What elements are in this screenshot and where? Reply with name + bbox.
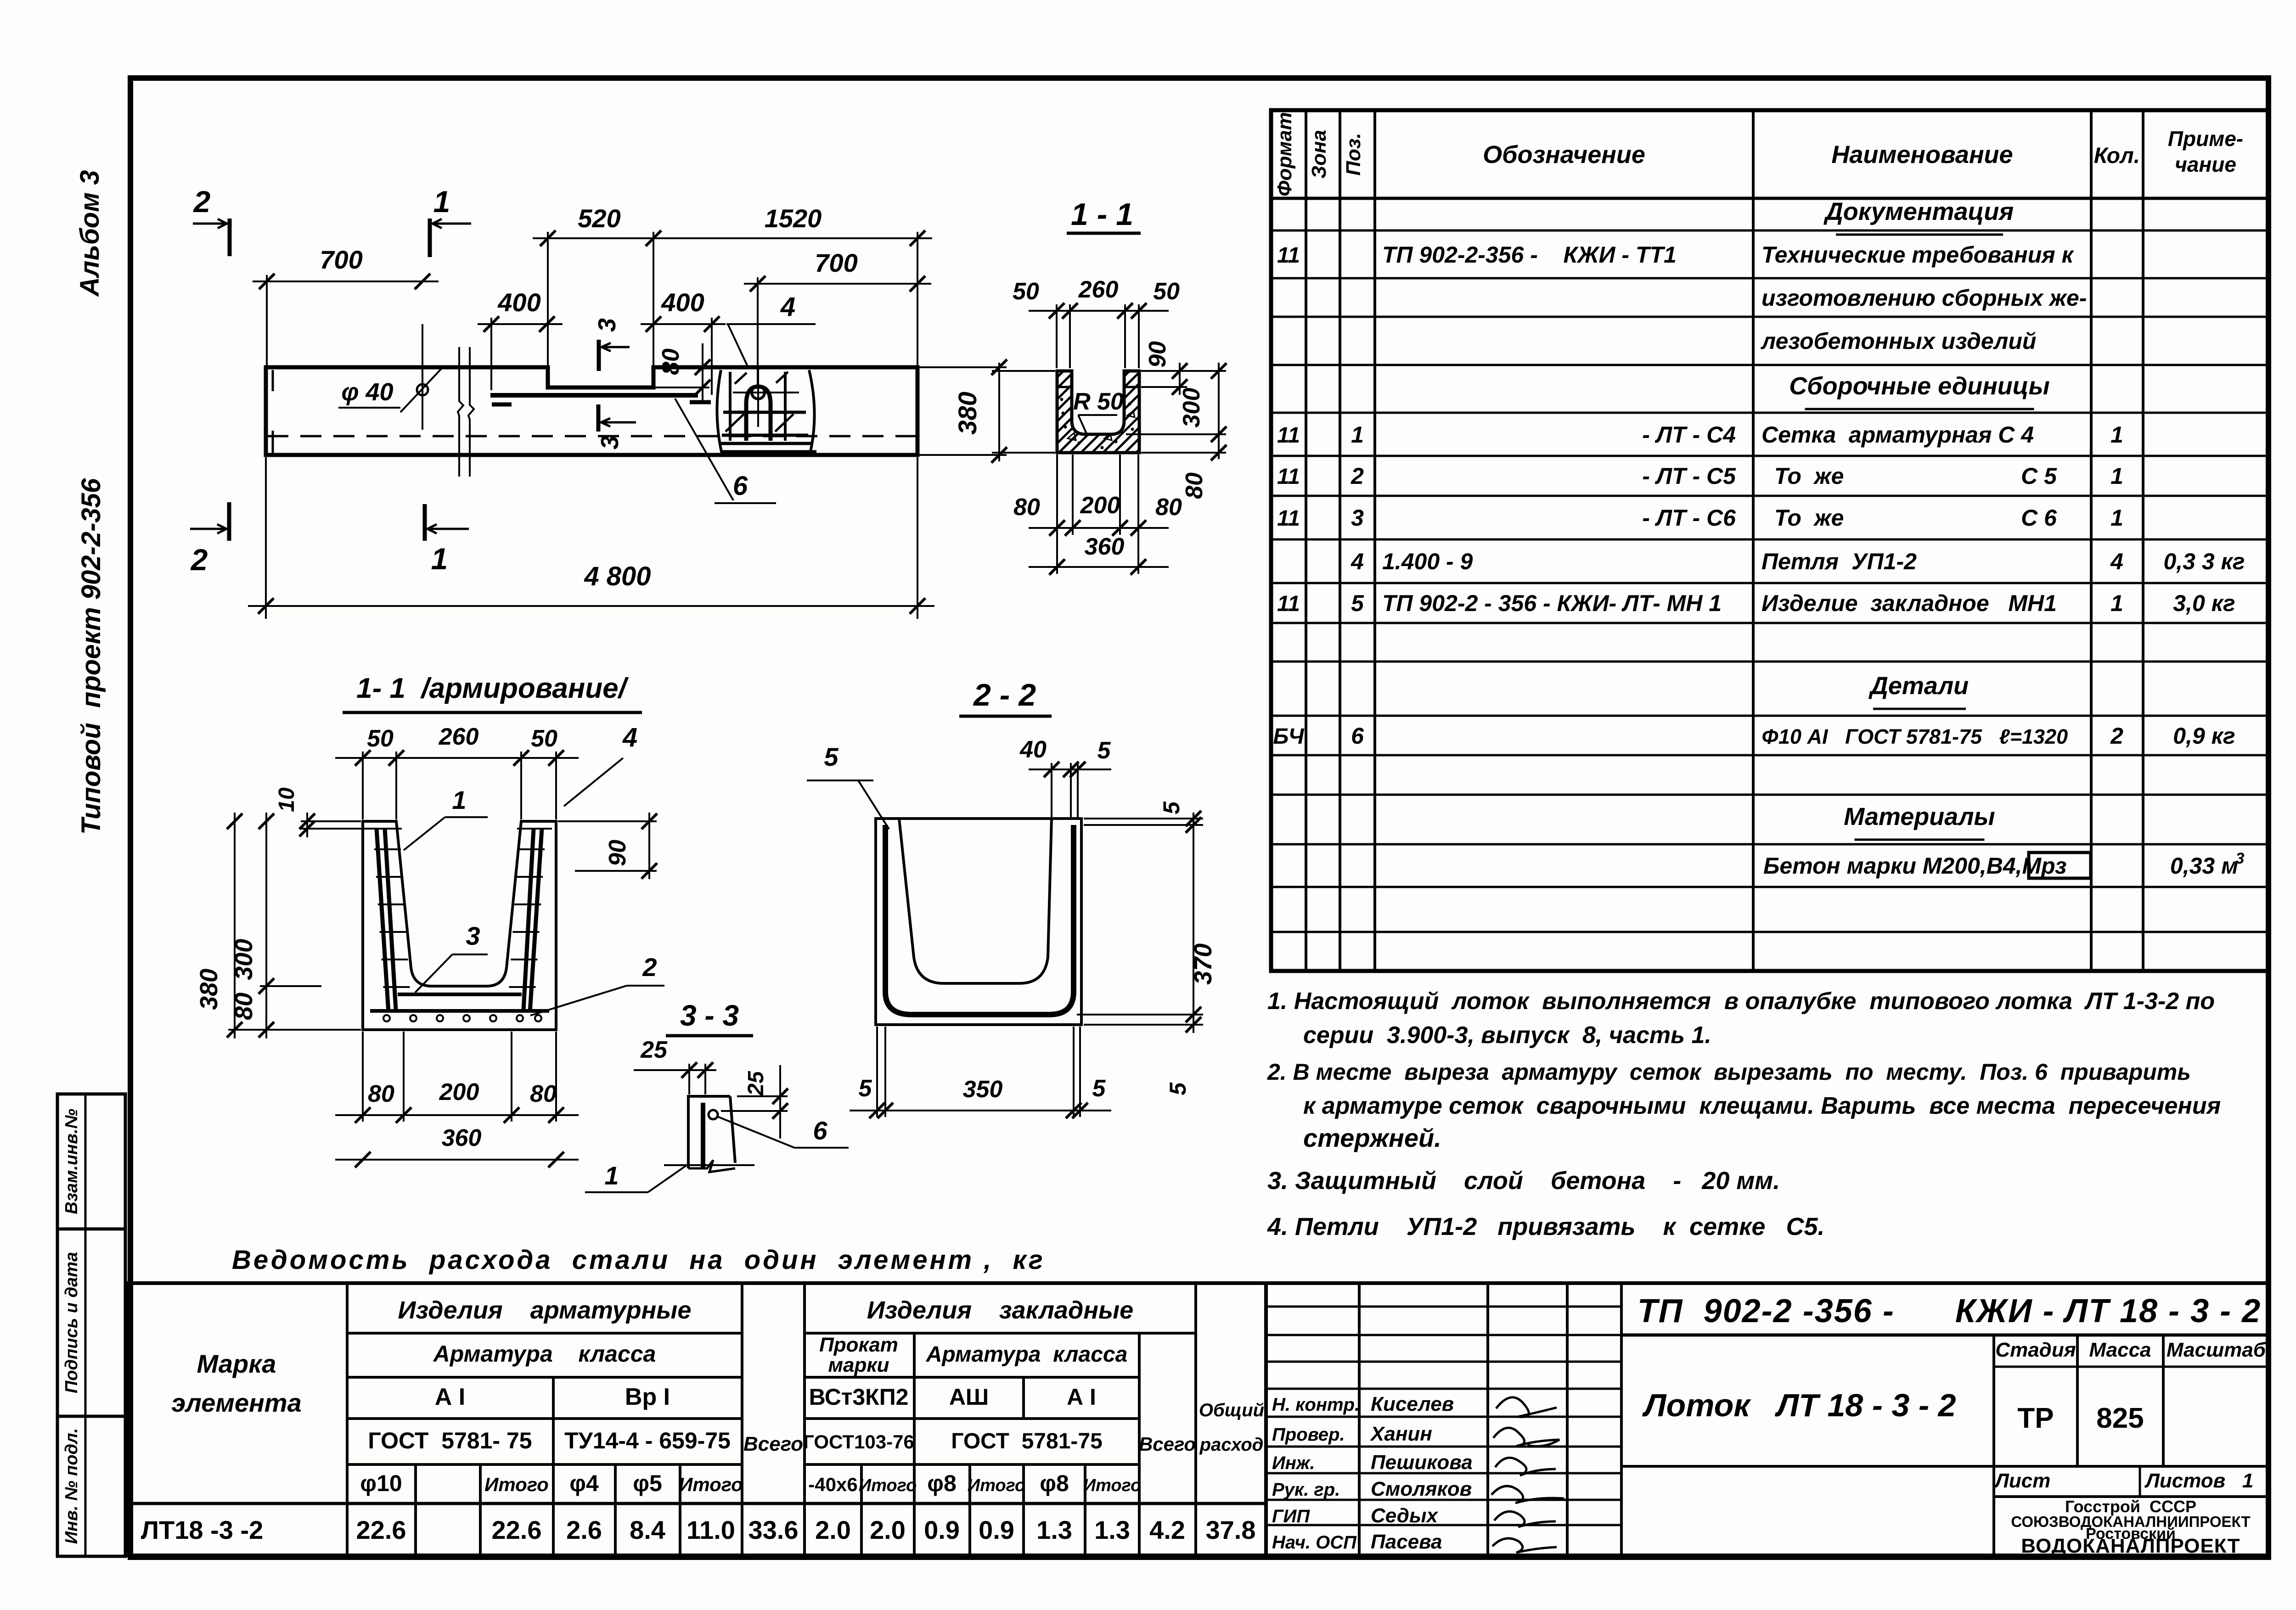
svg-text:22.6: 22.6 xyxy=(492,1515,542,1544)
signature squiggles xyxy=(1496,1397,1557,1417)
svg-text:80: 80 xyxy=(230,993,258,1020)
svg-text:8.4: 8.4 xyxy=(630,1515,665,1544)
embedded rod item6 main bar xyxy=(490,393,698,398)
svg-text:ВСт3КП2: ВСт3КП2 xyxy=(809,1384,909,1410)
svg-text:Общий: Общий xyxy=(1199,1400,1264,1420)
svg-text:А I: А I xyxy=(1067,1384,1096,1410)
svg-text:ГОСТ 5781-75: ГОСТ 5781-75 xyxy=(951,1429,1103,1453)
svg-text:φ8: φ8 xyxy=(1040,1470,1069,1496)
svg-text:Альбом 3: Альбом 3 xyxy=(75,170,105,297)
svg-text:3 - 3: 3 - 3 xyxy=(680,999,739,1032)
svg-text:Арматура класса: Арматура класса xyxy=(926,1342,1128,1367)
section mark 2 top xyxy=(228,219,232,256)
svg-text:6: 6 xyxy=(813,1116,827,1145)
vedomost row lines xyxy=(347,1332,742,1335)
svg-text:80: 80 xyxy=(1013,494,1040,521)
svg-text:6: 6 xyxy=(1351,723,1364,749)
svg-text:Вр I: Вр I xyxy=(625,1384,670,1410)
svg-text:2.0: 2.0 xyxy=(815,1515,851,1544)
loop circle xyxy=(752,386,765,399)
svg-text:1.3: 1.3 xyxy=(1036,1515,1072,1544)
svg-text:825: 825 xyxy=(2096,1402,2144,1434)
svg-text:ЛТ18 -3 -2: ЛТ18 -3 -2 xyxy=(141,1515,264,1544)
dimension 520 and 1520 top xyxy=(533,237,932,239)
bottom mesh C5 inner line xyxy=(398,993,522,996)
svg-text:350: 350 xyxy=(963,1076,1003,1103)
svg-text:1: 1 xyxy=(2110,505,2123,531)
svg-text:С 5: С 5 xyxy=(2021,463,2057,489)
svg-text:элемента: элемента xyxy=(171,1388,301,1417)
svg-text:φ4: φ4 xyxy=(569,1470,599,1496)
svg-text:ГОСТ103-76: ГОСТ103-76 xyxy=(803,1431,914,1453)
svg-text:Бетон марки М200,В4,Мрз: Бетон марки М200,В4,Мрз xyxy=(1763,853,2067,879)
svg-text:Зона: Зона xyxy=(1308,130,1330,179)
svg-text:серии 3.900-3, выпуск 8, час: серии 3.900-3, выпуск 8, часть 1. xyxy=(1303,1022,1711,1049)
svg-text:37.8: 37.8 xyxy=(1206,1515,1256,1544)
svg-text:0,3 3 кг: 0,3 3 кг xyxy=(2163,549,2245,574)
svg-text:1: 1 xyxy=(2110,463,2123,489)
section 3-3 dim 25 top xyxy=(634,1069,716,1071)
svg-text:2: 2 xyxy=(642,953,657,982)
loop patch cross wire xyxy=(723,411,806,414)
svg-text:Всего: Всего xyxy=(1139,1433,1196,1455)
svg-text:0.9: 0.9 xyxy=(924,1515,960,1544)
vedomost table outline xyxy=(126,1283,1266,1555)
svg-text:1.400 - 9: 1.400 - 9 xyxy=(1382,549,1473,574)
section 3-3 dim 25 right xyxy=(779,1065,781,1139)
svg-text:80: 80 xyxy=(1155,494,1182,521)
svg-text:520: 520 xyxy=(578,204,620,233)
svg-text:5: 5 xyxy=(1351,590,1364,616)
elevation hidden channel dashed line xyxy=(267,435,916,438)
svg-text:Масштаб: Масштаб xyxy=(2167,1339,2267,1361)
svg-text:Технические требования к: Технические требования к xyxy=(1761,242,2075,268)
section 1-1 concrete outline xyxy=(1057,371,1139,453)
svg-text:марки: марки xyxy=(828,1354,889,1376)
svg-text:Нач. ОСП: Нач. ОСП xyxy=(1272,1532,1357,1553)
svg-text:0,33 м: 0,33 м xyxy=(2170,853,2238,879)
hole phi40 leader xyxy=(400,367,443,412)
svg-text:11: 11 xyxy=(1277,592,1300,616)
svg-text:50: 50 xyxy=(367,725,394,752)
embedded rod item6 left hook xyxy=(492,403,512,407)
title block stadia section xyxy=(1992,1335,1995,1555)
svg-text:Сборочные единицы: Сборочные единицы xyxy=(1789,372,2050,400)
svg-text:300: 300 xyxy=(1178,388,1205,428)
svg-text:25: 25 xyxy=(744,1071,768,1096)
reinforcement dimension 360 xyxy=(335,1159,579,1161)
svg-text:Кол.: Кол. xyxy=(2094,144,2140,168)
svg-text:Поз.: Поз. xyxy=(1342,133,1365,175)
svg-text:50: 50 xyxy=(531,725,557,752)
reinforcement concrete outline xyxy=(363,821,556,1030)
svg-text:2: 2 xyxy=(193,185,211,219)
svg-text:Приме-: Приме- xyxy=(2168,127,2243,151)
svg-text:400: 400 xyxy=(661,288,704,317)
svg-text:ТУ14-4 - 659-75: ТУ14-4 - 659-75 xyxy=(564,1428,731,1453)
svg-text:5: 5 xyxy=(1092,1075,1106,1102)
leader to label 4 xyxy=(728,324,748,368)
section 1-1 dimension 90 right xyxy=(1179,363,1181,395)
svg-text:φ 40: φ 40 xyxy=(341,378,393,406)
svg-text:Наименование: Наименование xyxy=(1831,141,2013,168)
mesh C4 right wall bars xyxy=(530,829,542,1012)
svg-text:1520: 1520 xyxy=(765,204,822,233)
svg-text:1: 1 xyxy=(604,1161,619,1190)
section 2-2 outer outline xyxy=(876,819,1081,1025)
title block name cell Лоток xyxy=(1621,1465,1994,1468)
svg-text:БЧ: БЧ xyxy=(1273,724,1304,749)
svg-text:360: 360 xyxy=(1085,533,1125,560)
section 2-2 mesh C6 heavy U xyxy=(885,825,1074,1015)
svg-text:1. Настоящий лоток выполняет: 1. Настоящий лоток выполняется в опалубк… xyxy=(1267,988,2215,1015)
svg-text:Итого: Итого xyxy=(679,1474,743,1495)
svg-text:АШ: АШ xyxy=(949,1384,989,1410)
svg-text:ГОСТ 5781- 75: ГОСТ 5781- 75 xyxy=(368,1428,532,1453)
svg-text:расход: расход xyxy=(1199,1435,1264,1455)
vedomost column lines xyxy=(346,1283,349,1555)
hole phi40 centerline xyxy=(422,324,423,430)
svg-text:4: 4 xyxy=(1351,549,1364,574)
svg-text:Изделие закладное МН1: Изделие закладное МН1 xyxy=(1761,590,2057,616)
svg-text:Типовой проект 902-2-356: Типовой проект 902-2-356 xyxy=(76,478,106,835)
elevation body outline xyxy=(266,367,917,455)
svg-text:Материалы: Материалы xyxy=(1844,803,1995,830)
svg-text:R 50: R 50 xyxy=(1073,388,1124,415)
bottom bar sections xyxy=(383,1015,390,1021)
svg-text:Киселев: Киселев xyxy=(1371,1393,1454,1415)
title block vertical lines xyxy=(1358,1283,1361,1555)
svg-text:Инж.: Инж. xyxy=(1272,1453,1315,1473)
svg-text:4 800: 4 800 xyxy=(584,561,651,591)
bottom mesh C5 outer line xyxy=(370,1009,549,1013)
svg-text:380: 380 xyxy=(953,392,982,434)
svg-text:90: 90 xyxy=(1144,341,1171,368)
svg-text:3: 3 xyxy=(593,318,621,332)
svg-text:2.6: 2.6 xyxy=(566,1515,602,1544)
svg-text:Пасева: Пасева xyxy=(1371,1531,1442,1553)
svg-text:1 - 1: 1 - 1 xyxy=(1071,197,1133,232)
dimension 380 right elevation xyxy=(998,363,1000,461)
svg-text:- ЛТ - С5: - ЛТ - С5 xyxy=(1642,463,1736,489)
svg-text:1: 1 xyxy=(433,185,450,219)
svg-text:стержней.: стержней. xyxy=(1303,1123,1441,1152)
dimension 400 right xyxy=(641,323,726,325)
dimension 10 left top xyxy=(306,813,308,837)
svg-text:2: 2 xyxy=(190,543,208,577)
mesh cross wire ticks right wall xyxy=(518,848,545,850)
svg-text:1: 1 xyxy=(431,542,448,576)
svg-text:Провер.: Провер. xyxy=(1272,1425,1345,1445)
svg-text:Марка: Марка xyxy=(197,1349,276,1378)
section 3-3 plate break line xyxy=(688,1160,735,1172)
reinforcement bottom dimension 80 200 80 xyxy=(335,1114,579,1116)
title block big designation row line xyxy=(1621,1334,2268,1337)
svg-text:Лист: Лист xyxy=(1994,1470,2051,1492)
svg-text:200: 200 xyxy=(1080,492,1120,519)
svg-text:Подпись и дата: Подпись и дата xyxy=(62,1252,81,1393)
svg-text:700: 700 xyxy=(320,245,362,274)
dimension 4800 bottom xyxy=(248,605,934,607)
svg-text:0,9 кг: 0,9 кг xyxy=(2173,723,2235,749)
svg-text:чание: чание xyxy=(2175,152,2236,176)
section 1-1 top dimension 50 260 50 xyxy=(1029,310,1169,312)
svg-text:11: 11 xyxy=(1277,243,1300,268)
svg-text:370: 370 xyxy=(1189,943,1217,985)
svg-text:22.6: 22.6 xyxy=(356,1515,406,1544)
svg-text:50: 50 xyxy=(1153,278,1180,305)
svg-text:- ЛТ - С6: - ЛТ - С6 xyxy=(1642,505,1736,531)
loop patch inner verticals xyxy=(729,372,732,441)
svg-text:Ведомость расхода стали на: Ведомость расхода стали на один элемент … xyxy=(232,1245,1045,1275)
svg-text:То же: То же xyxy=(1761,463,1844,489)
svg-text:ГИП: ГИП xyxy=(1272,1506,1310,1526)
svg-text:25: 25 xyxy=(640,1037,668,1063)
svg-text:360: 360 xyxy=(442,1125,482,1151)
section mark 3 upper xyxy=(597,340,601,371)
section 1-1 dimension 360 xyxy=(1029,566,1169,568)
section mark 3 lower xyxy=(597,404,601,432)
svg-text:Смоляков: Смоляков xyxy=(1371,1478,1472,1500)
svg-text:3: 3 xyxy=(596,436,624,449)
section 1-1 dimensions 300 80 right xyxy=(1218,363,1220,459)
elevation left end line xyxy=(272,370,274,391)
svg-text:То же: То же xyxy=(1761,505,1844,531)
section 1-1 left extension lines xyxy=(992,370,1055,372)
svg-text:40: 40 xyxy=(1019,736,1047,763)
svg-text:80: 80 xyxy=(1181,472,1208,499)
section 2-2 bottom dims 5 350 5 xyxy=(850,1110,1111,1111)
svg-text:Взам.инв.№: Взам.инв.№ xyxy=(62,1109,81,1214)
spec table grid xyxy=(1271,110,2268,971)
svg-text:лезобетонных изделий: лезобетонных изделий xyxy=(1761,328,2036,354)
svg-text:5: 5 xyxy=(824,742,838,771)
svg-text:400: 400 xyxy=(497,288,540,317)
svg-text:4. Петли УП1-2 привязать: 4. Петли УП1-2 привязать к сетке С5. xyxy=(1267,1213,1825,1240)
svg-text:1.3: 1.3 xyxy=(1094,1515,1130,1544)
hole phi40 shelf xyxy=(338,407,400,409)
svg-text:11: 11 xyxy=(1277,465,1300,489)
svg-text:10: 10 xyxy=(275,787,299,812)
svg-text:φ5: φ5 xyxy=(633,1470,662,1496)
svg-text:ТР: ТР xyxy=(2017,1402,2054,1434)
svg-text:300: 300 xyxy=(230,939,258,980)
mesh top line left xyxy=(367,828,402,830)
svg-text:φ10: φ10 xyxy=(360,1470,402,1496)
svg-text:3: 3 xyxy=(1351,505,1364,531)
svg-text:Всего: Всего xyxy=(743,1433,803,1455)
section 3-3 rod bar xyxy=(701,1103,705,1168)
svg-text:Лоток ЛТ 18 - 3 - 2: Лоток ЛТ 18 - 3 - 2 xyxy=(1642,1387,1956,1423)
svg-text:1: 1 xyxy=(1351,422,1364,448)
svg-text:А I: А I xyxy=(435,1384,465,1410)
section 3-3 plate outline xyxy=(688,1096,730,1168)
svg-text:1- 1 /армирование/: 1- 1 /армирование/ xyxy=(356,673,629,704)
svg-text:ТП 902-2-356 - КЖИ - ТТ1: ТП 902-2-356 - КЖИ - ТТ1 xyxy=(1382,242,1677,268)
section mark 2 bottom xyxy=(227,502,231,541)
svg-text:5: 5 xyxy=(1165,1082,1191,1095)
svg-text:2: 2 xyxy=(2110,723,2123,749)
title block outline xyxy=(1266,1283,2268,1555)
svg-text:Прокат: Прокат xyxy=(819,1334,898,1356)
svg-text:260: 260 xyxy=(439,724,479,750)
section mark 1 top xyxy=(428,219,432,257)
svg-text:Н. контр.: Н. контр. xyxy=(1272,1395,1360,1415)
svg-text:260: 260 xyxy=(1078,276,1119,303)
hole phi40 circle xyxy=(417,384,428,395)
svg-text:Петля УП1-2: Петля УП1-2 xyxy=(1761,549,1917,574)
svg-text:11: 11 xyxy=(1277,506,1300,531)
svg-text:Масса: Масса xyxy=(2089,1339,2151,1361)
loop patch bottom stack xyxy=(722,434,808,437)
svg-text:6: 6 xyxy=(733,471,748,501)
svg-text:ТП 902-2 - 356 - КЖИ- ЛТ- МН 1: ТП 902-2 - 356 - КЖИ- ЛТ- МН 1 xyxy=(1382,590,1722,616)
svg-text:200: 200 xyxy=(439,1079,479,1105)
svg-text:80: 80 xyxy=(368,1081,394,1107)
svg-text:Формат: Формат xyxy=(1273,112,1296,196)
svg-text:Листов 1: Листов 1 xyxy=(2144,1470,2254,1492)
elevation break lines xyxy=(458,347,463,477)
svg-text:4: 4 xyxy=(780,292,795,322)
section 2-2 right chain 5 370 5 xyxy=(1193,813,1194,1033)
section 3-3 bottom ext line xyxy=(664,1164,754,1166)
svg-text:Итого: Итого xyxy=(968,1476,1025,1495)
svg-text:-40х6: -40х6 xyxy=(808,1474,857,1495)
svg-text:1: 1 xyxy=(452,785,466,814)
svg-text:380: 380 xyxy=(195,969,223,1010)
loop patch diagonal marks xyxy=(726,414,744,432)
svg-text:4: 4 xyxy=(622,723,637,752)
svg-text:Рук. гр.: Рук. гр. xyxy=(1272,1480,1340,1500)
dimension 700 left xyxy=(253,280,439,282)
svg-text:Документация: Документация xyxy=(1823,198,2014,225)
svg-text:90: 90 xyxy=(604,840,631,866)
loop patch outline xyxy=(717,370,722,454)
svg-text:Итого: Итого xyxy=(859,1476,917,1495)
mesh cross wire ticks left wall xyxy=(374,848,401,850)
svg-text:Седых: Седых xyxy=(1371,1504,1439,1527)
svg-text:5: 5 xyxy=(1159,801,1184,814)
svg-text:- ЛТ - С4: - ЛТ - С4 xyxy=(1642,422,1736,448)
dimension 400 left xyxy=(478,323,563,325)
svg-text:Детали: Детали xyxy=(1868,672,1969,700)
section 1-1 wall step lines xyxy=(1057,386,1072,388)
svg-text:Итого: Итого xyxy=(484,1474,549,1495)
svg-text:Изделия арматурные: Изделия арматурные xyxy=(398,1296,692,1324)
svg-text:Итого: Итого xyxy=(1083,1476,1141,1495)
svg-text:4: 4 xyxy=(2110,549,2123,574)
svg-text:Обозначение: Обозначение xyxy=(1483,141,1645,168)
embedded rod item6 right piece xyxy=(690,400,711,404)
svg-text:1: 1 xyxy=(2110,590,2123,616)
dimension 90 reinforcement right xyxy=(648,813,650,879)
svg-text:80: 80 xyxy=(530,1081,557,1107)
stamp boxes left margin xyxy=(57,1094,125,1556)
svg-text:1: 1 xyxy=(2110,422,2123,448)
svg-text:Φ10 АI ГОСТ 5781-75 ℓ=1320: Φ10 АI ГОСТ 5781-75 ℓ=1320 xyxy=(1761,725,2068,748)
dimension 380 reinforcement left xyxy=(234,813,236,1038)
svg-text:2. В месте выреза арматуру: 2. В месте выреза арматуру сеток вырезат… xyxy=(1267,1059,2191,1085)
svg-text:изготовлению сборных же-: изготовлению сборных же- xyxy=(1761,285,2087,311)
svg-text:3: 3 xyxy=(466,921,480,950)
svg-text:Инв. № подл.: Инв. № подл. xyxy=(62,1428,81,1544)
svg-text:3: 3 xyxy=(2236,850,2245,867)
svg-text:Пешикова: Пешикова xyxy=(1371,1451,1473,1474)
svg-text:5: 5 xyxy=(1097,737,1111,764)
svg-text:0.9: 0.9 xyxy=(979,1515,1014,1544)
svg-text:φ8: φ8 xyxy=(927,1470,957,1496)
leader to label 6 xyxy=(675,398,733,500)
svg-text:4.2: 4.2 xyxy=(1149,1515,1185,1544)
svg-text:80: 80 xyxy=(658,348,684,375)
loop arch item4 xyxy=(746,387,771,441)
section 2-2 interior outline xyxy=(899,819,1052,983)
svg-text:ТП 902-2 -356 - КЖИ - ЛТ: ТП 902-2 -356 - КЖИ - ЛТ 18 - 3 - 2 xyxy=(1638,1293,2261,1330)
svg-text:Ханин: Ханин xyxy=(1369,1423,1432,1445)
svg-text:ВОДОКАНАЛПРОЕКТ: ВОДОКАНАЛПРОЕКТ xyxy=(2021,1535,2240,1557)
svg-text:к арматуре сеток сварочными: к арматуре сеток сварочными клещами. Вар… xyxy=(1303,1093,2221,1119)
svg-text:Стадия: Стадия xyxy=(1995,1339,2076,1361)
svg-text:11.0: 11.0 xyxy=(687,1515,735,1544)
svg-text:С 6: С 6 xyxy=(2021,505,2057,531)
mesh top line right xyxy=(517,828,552,830)
svg-text:2 - 2: 2 - 2 xyxy=(973,678,1036,712)
mesh C4 left wall bars xyxy=(377,829,388,1012)
svg-text:2.0: 2.0 xyxy=(870,1515,906,1544)
svg-text:Арматура класса: Арматура класса xyxy=(433,1341,656,1367)
dimension 300 80 reinforcement xyxy=(265,813,267,1038)
section 3-3 rod circle item 6 xyxy=(709,1110,718,1119)
svg-text:3,0 кг: 3,0 кг xyxy=(2173,590,2235,616)
svg-text:Изделия закладные: Изделия закладные xyxy=(867,1296,1133,1324)
svg-text:33.6: 33.6 xyxy=(748,1515,799,1544)
title block left rows xyxy=(1266,1306,1621,1308)
svg-text:2: 2 xyxy=(1351,463,1364,489)
svg-text:Сетка арматурная С 4: Сетка арматурная С 4 xyxy=(1761,422,2034,448)
dimension 80 notch xyxy=(702,343,703,400)
svg-text:11: 11 xyxy=(1277,423,1300,448)
svg-text:700: 700 xyxy=(815,248,857,277)
svg-text:50: 50 xyxy=(1013,278,1039,305)
section 2-2 top right dims 40 5 xyxy=(1029,769,1111,770)
svg-text:3. Защитный слой бетона: 3. Защитный слой бетона - 20 мм. xyxy=(1267,1167,1780,1195)
section mark 1 bottom xyxy=(423,504,427,541)
section 1-1 bottom dimension 80 200 80 xyxy=(1029,527,1169,529)
reinforcement dimension 50 260 50 top xyxy=(335,757,579,759)
svg-text:5: 5 xyxy=(859,1075,872,1102)
dimension 700 right xyxy=(744,283,931,285)
